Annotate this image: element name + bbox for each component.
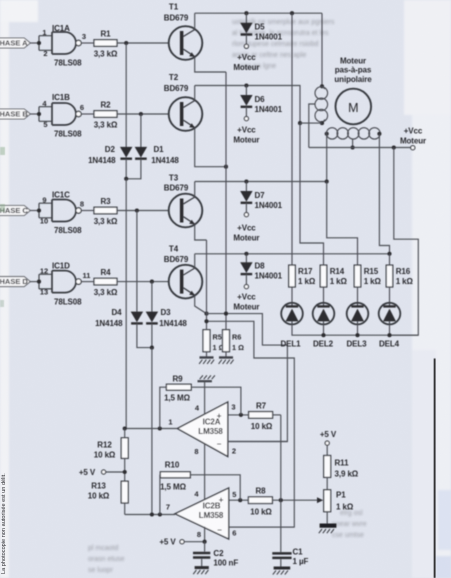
wire R8 right to P1 wiper with arrow xyxy=(272,499,321,501)
terminal +5V left xyxy=(79,468,125,477)
potentiometer P1 1k xyxy=(324,477,354,511)
node D6 junction xyxy=(244,83,248,87)
ground below P1 xyxy=(319,526,337,534)
wire R13 down to pin7 line xyxy=(124,503,126,515)
resistor R7 10k xyxy=(249,401,273,431)
wire xyxy=(117,210,169,212)
wire T1 collector rail xyxy=(195,12,322,14)
wire xyxy=(30,281,39,283)
wire DEL3 branch xyxy=(327,182,358,266)
wire T3 emitter to bus xyxy=(195,224,207,240)
node winding1 top xyxy=(320,84,324,88)
node DEL2 common junction xyxy=(321,333,325,337)
diode D8 1N4001 xyxy=(241,254,283,285)
wire IC2A pin3 line xyxy=(228,414,249,416)
terminal +Vcc Moteur for D8 xyxy=(233,285,259,312)
wire pin4 stub xyxy=(204,381,206,414)
diode D7 1N4001 xyxy=(241,182,283,213)
transistor T1 BD679 xyxy=(164,3,203,60)
wire IC2A pin1 output line xyxy=(125,428,178,430)
node DEL1 branch on T1 rail xyxy=(290,11,294,15)
capacitor C1 1uF xyxy=(272,548,308,568)
node R8 right reference junction xyxy=(279,498,283,502)
wire IC2A pin8 to IC2B pin4 xyxy=(204,444,206,500)
capacitor C2 100nF xyxy=(193,542,238,568)
node D7 junction xyxy=(244,179,248,183)
terminal +5V for R11 xyxy=(320,430,337,445)
wiper arrowhead xyxy=(317,497,323,503)
resistor R11 3,9k xyxy=(324,445,359,478)
wire xyxy=(117,113,169,115)
node base C junction xyxy=(135,208,139,212)
and-gate IC1B xyxy=(39,93,84,139)
motor caption Moteur pas-a-pas unipolaire xyxy=(334,57,372,84)
wire R9 right to pin3 xyxy=(191,387,241,415)
node winding2 right end xyxy=(377,132,381,136)
node PHASE A input tag xyxy=(0,38,30,48)
wire T1 collector xyxy=(194,13,196,29)
terminal +Vcc Moteur right xyxy=(400,127,426,150)
wire R10 left to pin7 xyxy=(159,475,161,515)
op-amp IC2A LM358 xyxy=(177,402,228,457)
diode D1 1N4148 xyxy=(135,145,179,165)
wire reference down to C1 xyxy=(280,500,282,552)
wire T1 rail corner down to winding1 top xyxy=(321,13,323,86)
node pin1 R9 junction xyxy=(158,426,162,430)
terminal +Vcc Moteur for D6 xyxy=(233,117,259,145)
wire T2 collector xyxy=(194,86,196,101)
resistor R10 1,5M xyxy=(160,460,190,491)
led DEL4 xyxy=(379,303,401,349)
node gate C input junction xyxy=(37,208,41,212)
wire P1 bottom to ground xyxy=(326,512,328,524)
wire IC2B pin8 stub xyxy=(204,527,206,542)
wire R9 left to pin1 xyxy=(160,387,167,428)
wire sense tap A to IC2A pin2 xyxy=(207,314,288,442)
wire T4 emitter to bus xyxy=(195,295,207,313)
resistor R3 3,3k xyxy=(94,197,118,226)
led DEL1 xyxy=(280,303,302,349)
node pin7 R10 junction xyxy=(158,512,162,516)
wire IC2B pin6 line xyxy=(229,526,295,528)
ground below C1 xyxy=(273,568,290,575)
node T3 rail end junction xyxy=(325,179,329,183)
node T4 emitter junction xyxy=(204,312,208,316)
wire xyxy=(117,281,169,283)
wire T4 collector xyxy=(194,254,196,268)
wire D1 anode column from base B xyxy=(140,114,142,147)
wire R10 right to pin5 xyxy=(190,475,240,500)
node pin1 R12 junction xyxy=(123,426,127,430)
diode D3 1N4148 xyxy=(146,308,187,328)
wire D4 anode column from base C xyxy=(136,211,138,312)
wire DEL2 branch from T2 rail corner xyxy=(300,123,324,265)
wire D2 anode column from base A xyxy=(125,43,127,147)
bleed-through artifacts xyxy=(0,147,5,307)
terminal +Vcc Moteur for D5 xyxy=(233,44,259,72)
resistor R17 1k xyxy=(289,265,316,287)
wire IC2B pin7 output line xyxy=(125,514,175,516)
wire T2 emitter to bus xyxy=(195,128,226,167)
wire sense tap B to IC2B pin6 xyxy=(207,321,295,527)
wire emitter bus T3 T4 xyxy=(206,240,208,330)
resistor R16 1k xyxy=(386,265,413,287)
wire winding1 centre tap xyxy=(309,104,316,148)
node PHASE C input tag xyxy=(0,206,30,216)
wire IC2A pin2 line xyxy=(228,441,288,443)
node pin3 R9 junction xyxy=(239,413,243,417)
wire winding2 left end down to T3 rail xyxy=(326,134,328,182)
transistor T2 BD679 xyxy=(164,73,203,131)
node PHASE B input tag xyxy=(0,109,30,119)
wire R16 to DEL4 xyxy=(389,287,391,303)
node D8 junction xyxy=(244,252,248,256)
op-amp IC2B LM358 xyxy=(175,488,229,539)
ground below R6 xyxy=(219,352,234,364)
wire T3 collector rail xyxy=(195,181,327,183)
resistor R4 3,3k xyxy=(94,268,118,297)
node PHASE D input tag xyxy=(0,277,30,287)
resistor R9 1,5M xyxy=(164,375,191,403)
diode D4 1N4148 xyxy=(95,308,143,328)
wire R12 column xyxy=(124,429,126,482)
transistor T4 BD679 xyxy=(164,245,203,299)
node base D junction xyxy=(150,280,154,284)
resistor R1 3,3k xyxy=(94,30,118,59)
node centre tap on +Vcc rail xyxy=(351,145,355,149)
resistor R6 1 ohm xyxy=(223,330,245,352)
wire DEL1 column xyxy=(291,13,293,265)
node T2 rail corner junction xyxy=(298,121,302,125)
diode D6 1N4001 xyxy=(241,86,283,117)
wire +Vcc Moteur rail xyxy=(309,147,411,149)
resistor R8 10k xyxy=(248,487,272,517)
node gate A input junction xyxy=(37,41,41,45)
wire xyxy=(81,42,94,44)
motor M circle xyxy=(336,89,372,125)
wire D3 D4 cathodes join xyxy=(137,323,152,347)
node D3 D4 join xyxy=(150,346,154,350)
ground below C2 xyxy=(193,568,209,575)
and-gate IC1C xyxy=(39,191,84,236)
wire LED common line xyxy=(292,324,418,335)
wire xyxy=(30,113,39,115)
node tap A on bus xyxy=(224,312,228,316)
transistor T3 BD679 xyxy=(164,174,203,228)
node T2 emitter junction xyxy=(224,165,228,169)
wire D3 D4 line down to IC2B output xyxy=(151,348,153,515)
wire D1 D2 line down to IC2A output xyxy=(125,179,127,429)
node base B junction xyxy=(139,112,143,116)
node base A junction xyxy=(124,41,128,45)
wire reference column R7 to R8 xyxy=(280,415,282,500)
node winding2 left end xyxy=(325,132,329,136)
wire xyxy=(117,42,169,44)
wire winding2 centre tap xyxy=(352,139,354,148)
wire T1 emitter to bus xyxy=(195,57,226,72)
wire xyxy=(30,210,39,212)
page fold black rule xyxy=(434,359,436,578)
node D1 D2 join xyxy=(124,177,128,181)
wire T3 collector xyxy=(194,182,196,197)
wire R14 to DEL2 xyxy=(323,287,325,303)
paper grain xyxy=(0,0,1,1)
wire xyxy=(81,281,94,283)
node DEL3 common junction xyxy=(355,333,359,337)
inductor winding 2 horizontal coil xyxy=(326,128,380,139)
wire IC2B pin5 line xyxy=(229,499,249,501)
node DEL4 common junction xyxy=(387,333,391,337)
wire winding2 right end down to T4 rail xyxy=(379,134,389,254)
wire xyxy=(81,210,94,212)
wire T2 collector rail xyxy=(195,86,300,124)
node +5V C2 junction xyxy=(203,540,207,544)
node +Vcc branch junction xyxy=(392,145,396,149)
ground IC2A pin4 xyxy=(198,375,215,381)
led DEL2 xyxy=(313,303,335,349)
node winding1 bottom xyxy=(320,121,324,125)
node R12 R13 +5V junction xyxy=(123,470,127,474)
wire R15 to DEL3 xyxy=(357,287,359,303)
led DEL3 xyxy=(346,303,368,349)
wire +Vcc branch down to LED common xyxy=(390,148,419,336)
wire T4 collector rail xyxy=(195,253,390,255)
wire D3 anode column from base D xyxy=(151,282,153,312)
node gate B input junction xyxy=(37,112,41,116)
diode D5 1N4001 xyxy=(241,13,283,44)
inductor winding 1 vertical coil xyxy=(315,86,328,123)
wire R17 to DEL1 xyxy=(291,287,293,303)
and-gate IC1D xyxy=(39,262,90,307)
node gate D input junction xyxy=(37,280,41,284)
terminal +Vcc Moteur for D7 xyxy=(233,213,259,243)
wire DEL4 branch xyxy=(389,254,391,265)
resistor R14 1k xyxy=(320,265,347,287)
node tap B on bus xyxy=(204,319,208,323)
node T4 rail end junction xyxy=(387,252,391,256)
resistor R13 10k xyxy=(88,481,128,503)
wire D1 D2 cathodes join xyxy=(126,159,141,179)
terminal +5V bottom xyxy=(159,538,204,547)
resistor R12 10k xyxy=(94,438,128,460)
wire xyxy=(30,42,39,44)
resistor R2 3,3k xyxy=(94,101,118,130)
node D5 junction xyxy=(244,11,248,15)
wire xyxy=(81,113,94,115)
diode D2 1N4148 xyxy=(88,145,132,165)
wire winding1 bottom to T2 rail xyxy=(300,122,322,124)
node pin7 D3D4 junction xyxy=(150,512,154,516)
wire emitter bus T1 T2 xyxy=(225,72,227,330)
resistor R5 1 ohm xyxy=(203,330,225,352)
ground below R5 xyxy=(199,352,214,364)
resistor R15 1k xyxy=(354,265,381,287)
node pin5 R10 junction xyxy=(238,498,242,502)
wire R7 right to reference column xyxy=(273,414,281,416)
and-gate IC1A xyxy=(39,24,86,68)
